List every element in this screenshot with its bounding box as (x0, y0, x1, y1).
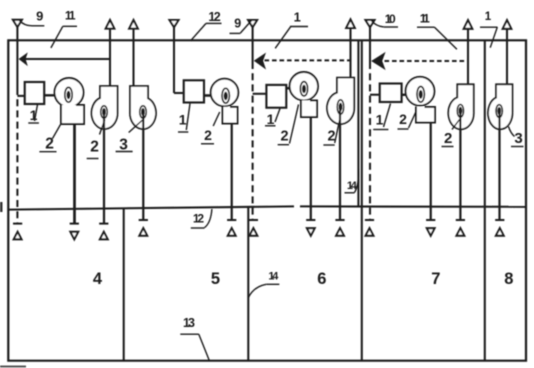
exhaust riser of fan D2 (467, 28, 469, 85)
label 1 (plenum, section E) (480, 11, 498, 48)
svg-text:11: 11 (65, 9, 76, 23)
svg-text:7: 7 (431, 270, 440, 288)
intake duct 9 dashed drop into room 4 (16, 88, 18, 223)
svg-text:8: 8 (504, 270, 513, 288)
exhaust riser of fan C2 (349, 27, 351, 78)
label 1 (heater D) (373, 104, 390, 130)
supply blower 2 (section A) (55, 78, 85, 124)
svg-text:2: 2 (90, 139, 99, 156)
impeller eye of blower B (222, 88, 229, 103)
wall between rooms 7 and 8 (484, 40, 486, 360)
wall between rooms 5 and 6 (247, 207, 249, 361)
room diffuser (dashed duct C, room 6): bar + up triangle (249, 220, 258, 236)
fresh-air intake duct 9 (section C) (252, 27, 254, 62)
svg-text:6: 6 (317, 270, 326, 288)
exhaust fan 3 (section A, third) (130, 86, 156, 129)
exhaust fan 2 (section A, second) (92, 86, 118, 129)
svg-text:1: 1 (267, 111, 275, 127)
extract pipe from fan D2 down into room 7 (459, 114, 461, 220)
scan smudge left edge (0, 202, 3, 212)
exhaust fan 3 (section E) (488, 84, 512, 129)
roof arrow (up triangle) of riser A3 (129, 20, 138, 29)
supply blower 2 (section B) (211, 79, 239, 124)
wall 14 between rooms 6 and 7 (double above ceiling) (358, 40, 361, 360)
fresh-air intake duct 10 (section D) (369, 27, 371, 62)
impeller eye of fan A3 (140, 106, 147, 118)
label 11 (plenum, section D) (417, 11, 457, 49)
impeller eye of fan E (496, 105, 502, 118)
intake duct C dashed drop into room 6 (252, 62, 254, 220)
label 13 (floor slab) (180, 316, 209, 360)
recirculation manifold (section C, dashed) (265, 59, 351, 61)
recirculation manifold (section A) (26, 58, 111, 60)
room grille (fan A2, room 4): bar + up triangle (99, 224, 108, 240)
svg-text:1: 1 (485, 11, 492, 23)
shaft heater B to blower B (204, 94, 222, 96)
impeller eye of blower D1 (417, 87, 424, 103)
label 14 (wall rooms 5/6) (249, 270, 280, 297)
exhaust fan 2 (section D) (448, 84, 473, 129)
room diffuser (blower D1, room 7): bar + down triangle (426, 220, 435, 236)
impeller eye of blower C1 (300, 82, 307, 96)
label 9 (intake duct, section C) (230, 17, 252, 34)
svg-text:2: 2 (280, 129, 288, 145)
label 12 (roof slab) (191, 10, 222, 41)
flow arrowhead (section D) (371, 52, 385, 70)
extract pipe from fan A3 down into room 5 (142, 115, 144, 220)
wire: connector duct9 to heater A (17, 95, 25, 97)
label 3 (fan A3) (116, 119, 145, 154)
svg-text:9: 9 (36, 9, 43, 24)
label 2 (fan D2) (442, 120, 460, 148)
room diffuser (blower A1, room 4): bar + down triangle (70, 224, 79, 240)
label 3 (fan E) (509, 127, 524, 148)
label 1 (heater A) (28, 105, 39, 124)
svg-text:14: 14 (268, 270, 279, 282)
shaft heater D to blower D1 (402, 93, 417, 96)
flow arrowhead (section A) (19, 52, 28, 66)
ceiling divider line 12 (rooms top) (8, 206, 526, 209)
supply drop pipe from blower B into room 5 (231, 124, 233, 220)
label 12 (room ceiling slab) (191, 209, 212, 228)
supply drop pipe from blower D1 into room 7 (430, 123, 432, 220)
label 2 (blower B) (201, 112, 220, 144)
svg-text:1: 1 (294, 9, 301, 24)
label 2 (fan C2) (323, 121, 339, 146)
heater 1 (section D) (380, 84, 402, 103)
label 1 (plenum, section C) (275, 9, 308, 48)
wire: connector duct B to heater B (174, 92, 184, 94)
svg-text:11: 11 (420, 11, 430, 25)
label 10 (intake duct, section D) (372, 12, 399, 27)
room diffuser (blower C1, room 6): bar + down triangle (306, 220, 315, 236)
label 9 (intake duct, section A) (20, 9, 45, 26)
room diffuser (dashed duct 10, room 7): bar + up triangle (365, 220, 374, 236)
room diffuser (dashed duct 9, room 4): bar + up triangle (13, 224, 22, 240)
room grille (fan E, room 8): bar + up triangle (495, 220, 504, 236)
svg-text:10: 10 (385, 12, 396, 26)
shaft heater C to blower C1 (286, 87, 300, 90)
room grille (blower B, room 5): bar + up triangle (227, 220, 236, 236)
roof arrow (up triangle) of riser A2 (106, 20, 115, 29)
svg-text:2: 2 (204, 127, 212, 143)
supply drop pipe from blower C1 into room 6 (310, 117, 312, 220)
svg-text:5: 5 (211, 270, 220, 288)
label 2 (fan A2) (87, 120, 105, 159)
wire: connector duct C to heater C (253, 93, 267, 95)
svg-text:3: 3 (514, 130, 522, 147)
supply blower 2 (section D) (406, 77, 435, 123)
svg-text:1: 1 (179, 112, 187, 128)
label 14 (wall rooms 6/7) (345, 169, 359, 193)
wall between rooms 4 and 5 (123, 208, 125, 361)
label 1 (heater B) (178, 104, 190, 133)
impeller eye of fan C2 (337, 100, 344, 114)
label 11 (plenum, section A) (51, 9, 77, 48)
svg-text:12: 12 (208, 10, 220, 24)
intake top symbol (down triangle) duct B (170, 20, 179, 27)
supply blower 2 (section C) (290, 72, 318, 117)
label 1 (heater C) (265, 109, 280, 128)
recirculation manifold (section D, dashed) (385, 60, 469, 62)
impeller eye of fan A2 (101, 106, 108, 118)
room grille (fan C2, room 6): bar + up triangle (335, 220, 344, 236)
intake top symbol (down triangle) on duct 9 (13, 20, 22, 27)
extract pipe from fan A2 down into room 4 (103, 115, 105, 223)
exhaust riser of fan A3 (132, 28, 134, 87)
roof arrow (up triangle) riser C2 (346, 19, 355, 28)
heater 1 (section C) (266, 85, 286, 108)
label 2 (blower D1) (398, 111, 417, 130)
svg-text:4: 4 (93, 270, 103, 288)
impeller eye of blower A1 (65, 87, 72, 102)
svg-text:2: 2 (444, 130, 452, 147)
impeller eye of fan D2 (457, 105, 463, 118)
heater 1 (section B) (184, 80, 204, 102)
intake top symbol (down triangle) duct C (248, 20, 257, 27)
intake top symbol (down triangle) duct 10 (366, 20, 375, 27)
wire: connector duct 10 to heater D (370, 94, 380, 96)
shaft heater A to blower A1 (44, 94, 66, 96)
label 2 (blower A1) (39, 125, 60, 153)
fresh-air intake duct (section B) (173, 27, 175, 93)
roof arrow (up triangle) riser D2 (464, 20, 473, 29)
svg-text:12: 12 (193, 211, 204, 225)
svg-text:1: 1 (376, 112, 384, 128)
extract pipe from fan C2 down into room 6 (339, 110, 341, 220)
room grille (fan A3, room 5): bar + up triangle (139, 220, 148, 236)
svg-text:9: 9 (234, 17, 241, 31)
exhaust riser of fan A2 (up through roof) (109, 28, 111, 87)
intake duct D dashed drop into room 7 (369, 62, 371, 220)
roof arrow (up triangle) riser E (503, 20, 512, 29)
exhaust fan 2 (section C) (327, 78, 354, 124)
label 2 (blower C1) (278, 105, 299, 145)
svg-text:2: 2 (399, 111, 407, 127)
extract pipe from fan E down into room 8 (498, 114, 500, 220)
flow arrowhead (section C) (254, 53, 266, 70)
exhaust riser of fan E (506, 28, 508, 85)
scan smudge bottom left (0, 366, 26, 368)
room grille (fan D2, room 7): bar + up triangle (456, 220, 465, 236)
svg-text:13: 13 (183, 316, 195, 330)
heater 1 (section A) (25, 82, 45, 104)
fresh-air intake duct 9 (section A) solid part (16, 27, 18, 88)
supply drop pipe from blower A1 into room 4 (73, 124, 76, 223)
